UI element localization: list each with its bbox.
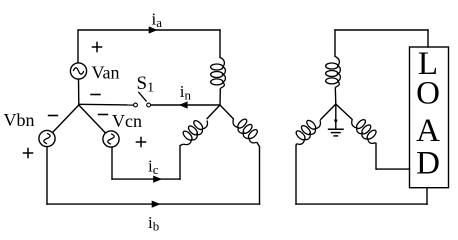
source Van (AC) xyxy=(70,63,86,79)
wire: i_c vertical up to coil Lc xyxy=(179,145,181,180)
switch S1 right contact xyxy=(147,103,151,107)
wire: right leg horizontal into LOAD xyxy=(376,168,410,170)
wire: coil Lb end to corner xyxy=(257,142,260,146)
wire: vertical coil to star point xyxy=(334,87,337,104)
svg-text:in: in xyxy=(180,82,192,103)
wire: right circuit top xyxy=(334,29,428,31)
wire: Vbn bottom down xyxy=(46,147,48,205)
polarity + (Vbn lower) xyxy=(23,148,34,159)
wire: right circuit bottom xyxy=(295,203,427,205)
wire: bottom-right vertical up xyxy=(259,146,261,205)
wire: neutral to Vbn (diagonal) xyxy=(53,105,79,132)
svg-text:A: A xyxy=(416,113,440,149)
polarity - (Vcn upper) xyxy=(98,114,108,116)
inductor Lb (left circuit down-right coil) xyxy=(233,118,259,143)
switch S1 left contact xyxy=(134,103,138,107)
switch S1 blade xyxy=(138,92,146,102)
source Vcn (AC) xyxy=(103,131,119,147)
arrow: i_n current direction (left) xyxy=(179,101,188,108)
polarity - (Van bottom) xyxy=(90,94,100,96)
wire: star point to coil Lc (diagonal) xyxy=(207,105,220,119)
wire: left coil end to corner xyxy=(295,144,297,146)
arrow: i_a current direction xyxy=(149,26,158,33)
svg-text:O: O xyxy=(416,76,440,112)
inductor (right circuit down-right coil) xyxy=(352,118,378,143)
LOAD box xyxy=(410,47,449,188)
ground symbol xyxy=(328,129,344,136)
source Vbn (AC) xyxy=(39,130,55,146)
svg-text:Vbn: Vbn xyxy=(4,110,35,130)
inductor (right circuit down-left coil) xyxy=(295,119,321,144)
wire: neutral to Vcn (diagonal) xyxy=(79,105,106,133)
svg-text:Vcn: Vcn xyxy=(112,111,142,131)
wire: top wire down into LOAD box xyxy=(427,29,429,47)
wire: star to right coil (diagonal) xyxy=(336,104,353,120)
wire: star to left coil (diagonal) xyxy=(320,104,336,120)
wire: right top-left vertical xyxy=(334,29,336,57)
wire: bottom up into LOAD box xyxy=(426,188,428,205)
polarity + (Vcn right) xyxy=(136,137,147,148)
arrow: i_c current direction xyxy=(153,176,162,183)
wire: coil Lc end to corner xyxy=(180,144,183,145)
wire: top-left vertical down to Van xyxy=(77,29,79,63)
inductor (right circuit vertical coil) xyxy=(326,57,341,88)
wire: star point to coil Lb (diagonal) xyxy=(220,105,234,119)
svg-text:D: D xyxy=(416,146,440,182)
polarity + (Van top) xyxy=(92,42,103,53)
svg-text:S1: S1 xyxy=(137,73,155,96)
wire: left circuit top (phase a) xyxy=(78,29,221,31)
svg-text:ic: ic xyxy=(148,157,159,178)
wire: star to ground xyxy=(335,104,337,130)
wire: top-right vertical down to coil La xyxy=(219,29,221,58)
polarity - (Vbn upper) xyxy=(48,115,58,117)
wire: switch S1 to star point xyxy=(150,104,220,106)
wire: Vcn bottom down xyxy=(111,147,113,180)
arrow: i_b current direction xyxy=(152,201,161,208)
wire: coil La to star point xyxy=(219,88,221,105)
inductor La (left circuit vertical coil) xyxy=(211,58,226,89)
svg-text:Van: Van xyxy=(92,63,120,83)
wire: Van bottom to neutral node xyxy=(78,79,80,105)
svg-text:ib: ib xyxy=(148,213,159,234)
wire: left circuit bottom (phase b) xyxy=(46,203,260,205)
arrow: ground current (down) xyxy=(334,120,338,125)
wire: right coil end to corner xyxy=(375,142,378,145)
wire: right circuit left vertical xyxy=(295,145,297,205)
svg-text:ia: ia xyxy=(152,10,163,31)
wire: neutral node to switch S1 xyxy=(79,103,134,106)
wire: right leg vertical xyxy=(375,143,377,170)
inductor Lc (left circuit down-left coil) xyxy=(182,119,208,144)
wire: i_c horizontal xyxy=(111,178,180,180)
